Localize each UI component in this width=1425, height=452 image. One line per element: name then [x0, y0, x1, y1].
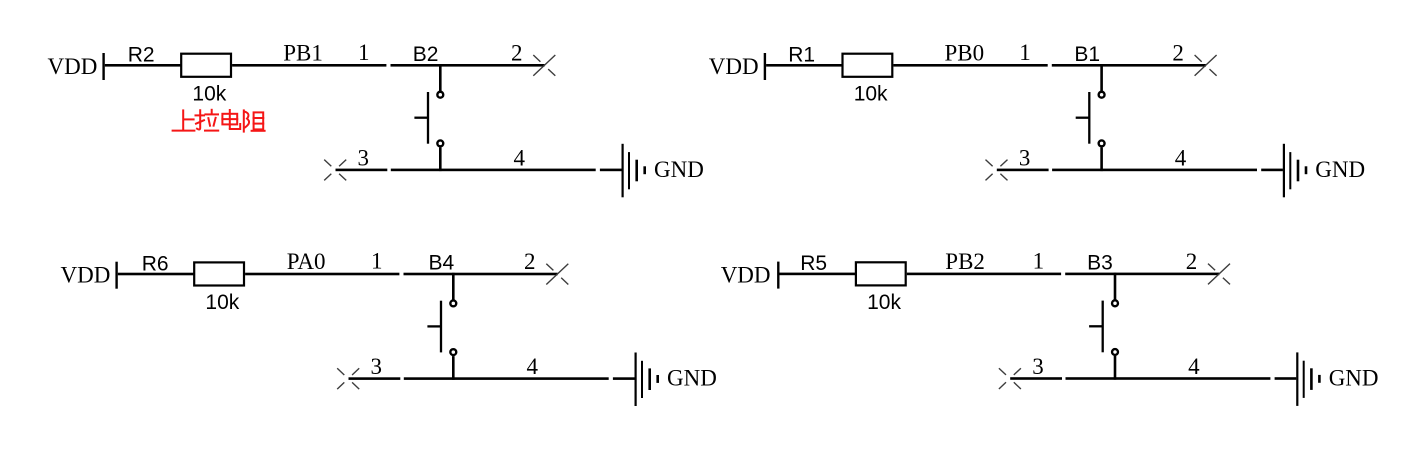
svg-text:R2: R2: [128, 44, 155, 67]
svg-text:4: 4: [1175, 145, 1187, 170]
resistor R2: [181, 54, 231, 77]
wire B3 pin 1 to pin 2 with no-connect: [1065, 273, 1219, 276]
wire B2 pin 4 segment: [391, 169, 596, 172]
svg-text:GND: GND: [654, 157, 704, 182]
wire resistor R1 to net PB0: [893, 64, 1047, 67]
wire junction down to B4 top contact: [452, 273, 455, 300]
svg-text:10k: 10k: [854, 83, 888, 106]
wire B4 bottom contact to pin3-4 net: [452, 356, 455, 380]
wire junction down to B1 top contact: [1100, 64, 1103, 91]
svg-text:PB1: PB1: [283, 40, 323, 65]
ground symbol GND (B1): [1283, 144, 1307, 198]
no-connect cross at B3 pin 3: [999, 368, 1021, 389]
no-connect cross at B2 pin 3: [324, 160, 346, 181]
ground symbol GND (B2): [622, 144, 647, 198]
svg-text:4: 4: [1188, 354, 1200, 379]
svg-text:B1: B1: [1074, 43, 1100, 66]
resistor R5: [856, 262, 906, 285]
push button B4 symbol: [427, 300, 456, 355]
svg-text:1: 1: [358, 40, 370, 65]
no-connect cross at B4 pin 3: [337, 368, 359, 389]
no-connect cross at B3 pin 2: [1208, 264, 1230, 285]
wire junction down to B2 top contact: [439, 64, 442, 91]
svg-text:VDD: VDD: [721, 263, 771, 288]
svg-text:B2: B2: [413, 43, 439, 66]
wire resistor R6 to net PA0: [245, 273, 399, 276]
svg-text:2: 2: [1172, 40, 1184, 65]
no-connect cross at B2 pin 2: [533, 55, 555, 76]
svg-text:PB2: PB2: [945, 249, 985, 274]
wire B4 pin 3 segment: [349, 377, 401, 380]
push button B2 symbol: [414, 92, 443, 147]
wire B2 bottom contact to pin3-4 net: [439, 147, 442, 171]
wire to ground symbol near B3: [1275, 377, 1297, 380]
svg-text:10k: 10k: [205, 291, 239, 314]
wire B1 pin 3 segment: [997, 169, 1049, 172]
wire junction down to B3 top contact: [1114, 273, 1117, 300]
svg-text:1: 1: [371, 249, 383, 274]
wire B1 bottom contact to pin3-4 net: [1100, 147, 1103, 171]
svg-text:10k: 10k: [867, 291, 901, 314]
red annotation text "上拉电阻" (pull-up resistor): [173, 110, 265, 132]
wire VDD terminal to resistor R1 pin: [766, 64, 842, 67]
wire VDD terminal to resistor R5 pin: [780, 273, 856, 276]
svg-text:4: 4: [526, 354, 538, 379]
svg-text:2: 2: [524, 249, 536, 274]
no-connect cross at B1 pin 2: [1195, 55, 1217, 76]
svg-text:1: 1: [1033, 248, 1045, 273]
power terminal bar VDD: [777, 262, 779, 289]
ground symbol GND (B4): [635, 353, 660, 407]
wire B1 pin 4 segment: [1052, 169, 1257, 172]
wire B2 pin 3 segment: [336, 169, 388, 172]
wire B3 pin 3 segment: [1010, 377, 1062, 380]
push button B3 symbol: [1089, 300, 1118, 355]
svg-text:2: 2: [1186, 249, 1198, 274]
svg-text:PB0: PB0: [945, 40, 985, 65]
ground symbol GND (B3): [1296, 352, 1321, 406]
no-connect cross at B1 pin 3: [986, 160, 1008, 181]
svg-text:3: 3: [371, 354, 383, 379]
svg-text:R5: R5: [800, 252, 827, 275]
svg-text:R1: R1: [788, 44, 815, 67]
svg-text:B3: B3: [1087, 252, 1113, 275]
power terminal bar VDD: [764, 53, 766, 80]
no-connect cross at B4 pin 2: [546, 264, 568, 285]
svg-text:B4: B4: [429, 252, 455, 275]
wire to ground symbol near B2: [600, 169, 622, 172]
wire B4 pin 4 segment: [404, 377, 609, 380]
wire B3 pin 4 segment: [1066, 377, 1271, 380]
wire VDD terminal to resistor R2 pin: [105, 64, 181, 67]
svg-text:1: 1: [1019, 40, 1031, 65]
svg-text:VDD: VDD: [61, 263, 111, 288]
svg-text:4: 4: [513, 145, 525, 170]
svg-text:3: 3: [358, 145, 370, 170]
svg-text:3: 3: [1019, 145, 1031, 170]
svg-text:GND: GND: [667, 366, 717, 391]
svg-text:VDD: VDD: [709, 54, 759, 79]
svg-text:2: 2: [511, 40, 523, 65]
svg-text:3: 3: [1032, 354, 1044, 379]
wire VDD terminal to resistor R6 pin: [118, 273, 194, 276]
svg-text:VDD: VDD: [48, 54, 98, 79]
wire B2 pin 1 to pin 2 with no-connect: [391, 64, 545, 67]
wire to ground symbol near B4: [613, 377, 635, 380]
wire B3 bottom contact to pin3-4 net: [1114, 356, 1117, 380]
power terminal bar VDD: [102, 53, 104, 80]
wire resistor R5 to net PB2: [907, 273, 1061, 276]
resistor R6: [194, 262, 244, 285]
wire resistor R2 to net PB1: [232, 64, 386, 67]
wire to ground symbol near B1: [1261, 169, 1283, 172]
svg-text:PA0: PA0: [287, 249, 326, 274]
wire B4 pin 1 to pin 2 with no-connect: [404, 273, 558, 276]
push button B1 symbol: [1076, 92, 1105, 147]
svg-text:GND: GND: [1315, 157, 1365, 182]
wire B1 pin 1 to pin 2 with no-connect: [1052, 64, 1206, 67]
resistor R1: [843, 54, 893, 77]
svg-text:R6: R6: [142, 252, 169, 275]
power terminal bar VDD: [115, 262, 117, 289]
svg-text:10k: 10k: [192, 83, 226, 106]
svg-text:GND: GND: [1329, 366, 1379, 391]
